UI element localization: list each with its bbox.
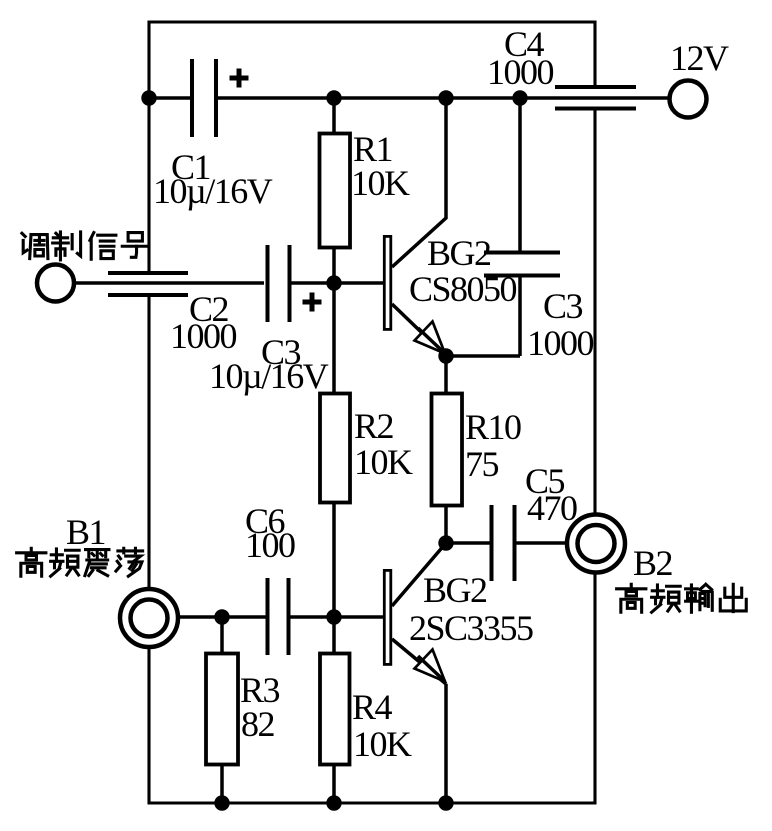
svg-text:10K: 10K <box>353 724 412 764</box>
svg-text:10µ/16V: 10µ/16V <box>209 356 329 396</box>
svg-text:2SC3355: 2SC3355 <box>409 608 533 648</box>
svg-text:1000: 1000 <box>487 52 554 92</box>
svg-text:B1: B1 <box>66 512 105 552</box>
svg-text:1000: 1000 <box>527 323 594 363</box>
svg-text:B2: B2 <box>633 543 673 583</box>
svg-text:470: 470 <box>527 488 577 528</box>
svg-text:10K: 10K <box>354 442 413 482</box>
svg-text:82: 82 <box>241 704 275 744</box>
svg-text:BG2: BG2 <box>427 233 491 273</box>
svg-text:10K: 10K <box>351 163 410 203</box>
svg-text:R2: R2 <box>354 406 394 446</box>
svg-text:C3: C3 <box>543 286 583 326</box>
svg-text:R10: R10 <box>465 407 521 447</box>
svg-text:12V: 12V <box>670 38 729 78</box>
svg-text:R4: R4 <box>352 687 393 727</box>
svg-text:CS8050: CS8050 <box>409 269 517 309</box>
svg-text:100: 100 <box>245 525 295 565</box>
svg-text:75: 75 <box>465 444 499 484</box>
svg-text:10µ/16V: 10µ/16V <box>153 171 273 211</box>
svg-text:1000: 1000 <box>170 316 237 356</box>
svg-text:BG2: BG2 <box>423 570 487 610</box>
